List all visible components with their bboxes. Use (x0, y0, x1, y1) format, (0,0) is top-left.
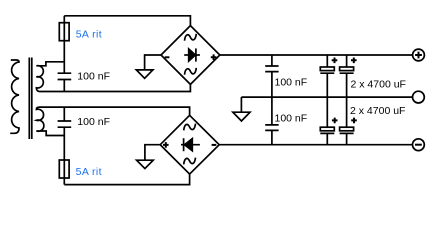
electrolytic capacitor E1 top lead (326, 55, 328, 67)
electrolytic E4 plus mark (351, 118, 357, 124)
fuse F2 (59, 160, 69, 178)
fuse F1 lead (63, 16, 65, 73)
electrolytic E3 plus mark (332, 118, 338, 124)
fuse F2 lead (63, 136, 65, 185)
bridge B1 AC sine bottom (185, 68, 197, 75)
ground symbol G2 wire (145, 145, 160, 161)
capacitor C4 100 nF (265, 125, 278, 145)
terminal minus sign (415, 144, 422, 146)
svg-text:2 x 4700 uF: 2 x 4700 uF (351, 78, 406, 90)
electrolytic E1 plus mark (332, 58, 338, 64)
bridge rectifier B2 diamond (160, 115, 219, 174)
bridge B2 diode lead (181, 144, 200, 146)
transformer T1 secondary winding S2 (36, 107, 64, 135)
electrolytic capacitor E1 (320, 67, 334, 97)
svg-text:100 nF: 100 nF (275, 77, 308, 89)
ground symbol G3 (233, 112, 250, 121)
electrolytic capacitor E3 (320, 127, 334, 144)
wire 0 rail (241, 96, 412, 98)
bridge B1 AC sine top (185, 34, 197, 41)
electrolytic E2 plus mark (351, 58, 357, 64)
electrolytic capacitor E3 top lead (326, 97, 328, 127)
bridge B1 diode lead (184, 54, 200, 56)
svg-text:100 nF: 100 nF (77, 71, 110, 83)
bridge B2 AC sine bottom (184, 158, 196, 165)
fuse F1 (59, 23, 69, 41)
capacitor C2 100 nF (across S2) (58, 121, 72, 136)
capacitor C3 100 nF top lead (271, 55, 273, 66)
bridge B2 minus mark (212, 144, 217, 146)
capacitor C2 100 nF top lead (63, 107, 65, 121)
terminal zero circle (413, 91, 425, 103)
svg-text:5A rit: 5A rit (76, 29, 102, 41)
capacitor C3 100 nF (265, 66, 278, 97)
electrolytic capacitor E4 top lead (346, 97, 348, 127)
wire S1 bottom to bridge B1 bottom (40, 84, 191, 91)
wire + rail (220, 54, 413, 56)
svg-text:100 nF: 100 nF (77, 116, 110, 128)
bridge B2 diode triangle (185, 139, 193, 151)
ground symbol G3 stub (240, 97, 242, 112)
bridge rectifier B1 diamond (161, 26, 220, 85)
bridge B2 AC sine top (184, 124, 196, 131)
bridge B1 diode cathode bar (195, 48, 197, 61)
bridge B2 plus mark (163, 142, 169, 148)
wire S2 top to bridge B2 top (40, 107, 190, 115)
transformer T1 primary winding (10, 60, 19, 133)
electrolytic capacitor E2 top lead (346, 55, 348, 67)
terminal minus circle (413, 139, 425, 151)
svg-text:5A rit: 5A rit (76, 166, 102, 178)
wire minus rail (219, 144, 412, 146)
wire bottom AC (fuse F2 to bridge B2 bottom) (64, 174, 189, 185)
bridge B1 plus mark (211, 54, 217, 60)
terminal plus sign (415, 52, 422, 59)
transformer T1 secondary winding S1 (36, 62, 64, 92)
bridge B1 minus mark (165, 56, 170, 58)
terminal plus circle (413, 49, 425, 61)
bridge B1 diode triangle (189, 49, 196, 61)
electrolytic capacitor E2 (340, 67, 354, 97)
capacitor C1 100 nF (across S1) (58, 73, 72, 91)
ground symbol G1 (136, 70, 153, 78)
electrolytic capacitor E4 (340, 127, 354, 144)
ground symbol G2 (137, 160, 154, 168)
wire top AC (fuse F1 to bridge B1 top) (64, 16, 190, 26)
svg-text:100 nF: 100 nF (275, 112, 308, 124)
capacitor C4 100 nF top lead (271, 97, 273, 125)
svg-text:2 x 4700 uF: 2 x 4700 uF (350, 105, 405, 117)
bridge B2 diode cathode bar (183, 138, 185, 151)
ground symbol G1 wire (145, 55, 161, 70)
transformer T1 core (29, 58, 32, 140)
